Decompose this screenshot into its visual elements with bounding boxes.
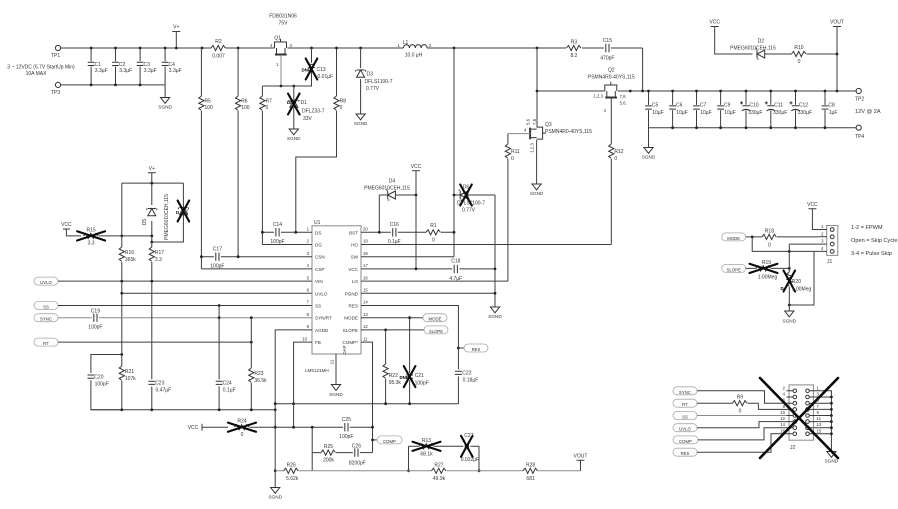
op-amp U1 LM5121MH controller <box>302 220 368 373</box>
wire Q3 gate / resistor R11 <box>505 134 530 282</box>
svg-text:49.9k: 49.9k <box>433 476 446 482</box>
svg-text:L1: L1 <box>403 40 409 46</box>
svg-text:PMEG6010CEH,115: PMEG6010CEH,115 <box>364 186 410 192</box>
ground SGND below J1 <box>783 305 797 324</box>
capacitor C27 (DNP) <box>461 433 479 471</box>
svg-text:0.1µF: 0.1µF <box>223 388 236 394</box>
svg-text:95.3k: 95.3k <box>389 380 402 386</box>
resistor R8 <box>296 48 346 232</box>
svg-text:PSMN4R0-40YS,115: PSMN4R0-40YS,115 <box>545 129 592 135</box>
power flag V+ top <box>172 25 180 49</box>
svg-text:0: 0 <box>739 409 742 415</box>
svg-text:UVLO: UVLO <box>40 280 52 285</box>
capacitor C13 (DNP) <box>281 48 333 86</box>
svg-text:R25: R25 <box>324 444 333 450</box>
resistor R28 <box>523 462 537 482</box>
annotation jumper settings <box>851 225 897 257</box>
wire Q3 source to ground <box>536 140 538 184</box>
svg-text:10A MAX: 10A MAX <box>26 71 48 77</box>
testpoint TP2 <box>855 88 864 102</box>
svg-text:VCC: VCC <box>188 425 199 431</box>
capacitor C11 (polarized) <box>765 91 787 128</box>
svg-text:10: 10 <box>780 410 785 415</box>
svg-text:DNP: DNP <box>400 375 409 380</box>
svg-text:C15: C15 <box>603 38 612 44</box>
capacitor C25 <box>339 417 353 440</box>
net bubble RES <box>458 344 488 352</box>
svg-text:C27: C27 <box>464 433 473 439</box>
wire C25 row <box>275 426 372 428</box>
zener D1 (DNP) <box>287 86 325 129</box>
svg-text:R28: R28 <box>526 462 535 468</box>
svg-text:365k: 365k <box>125 257 136 263</box>
wire R17/C23 column <box>151 281 153 379</box>
svg-text:17: 17 <box>363 263 368 268</box>
svg-text:VIN: VIN <box>315 279 323 284</box>
svg-text:3.3: 3.3 <box>155 257 162 263</box>
svg-text:75V: 75V <box>279 21 289 27</box>
wire RT row <box>58 341 251 343</box>
svg-text:3.3µF: 3.3µF <box>144 68 157 74</box>
svg-text:3.3: 3.3 <box>88 241 95 247</box>
svg-text:8200pF: 8200pF <box>349 461 366 467</box>
ground SGND below D3 <box>354 114 368 126</box>
wire SYNC row <box>99 317 312 319</box>
svg-text:330µF: 330µF <box>748 110 762 116</box>
svg-text:Q1: Q1 <box>274 36 281 42</box>
capacitor C26 <box>349 444 373 467</box>
capacitor C22 <box>455 371 478 384</box>
svg-text:TP4: TP4 <box>855 134 864 140</box>
svg-text:68.1k: 68.1k <box>420 451 433 457</box>
wire RES row and column <box>361 306 458 404</box>
wire output ground rail <box>649 127 857 129</box>
connector J1 <box>819 224 838 265</box>
resistor R2 (shunt) <box>211 39 225 60</box>
svg-text:1,2,3: 1,2,3 <box>593 94 603 99</box>
svg-text:D6: D6 <box>463 185 470 191</box>
net bubble SYNC <box>34 314 58 322</box>
transistor Q1 <box>269 14 297 68</box>
resistor R24 (DNP) <box>228 419 275 439</box>
power flag VCC left <box>61 222 81 236</box>
svg-text:SGND: SGND <box>158 105 172 110</box>
diode D2 <box>730 39 791 60</box>
resistor R21 <box>119 355 136 410</box>
power flag VCC at J1 <box>807 202 819 230</box>
svg-text:DNP: DNP <box>287 100 296 105</box>
junction dots input rail <box>90 47 93 50</box>
wire UVLO pin row <box>122 281 312 293</box>
svg-text:100pF: 100pF <box>339 434 353 440</box>
capacitor C12 (polarized) <box>790 91 812 128</box>
svg-text:18: 18 <box>363 251 368 256</box>
svg-text:0.007: 0.007 <box>212 54 225 60</box>
svg-text:C10: C10 <box>749 103 758 109</box>
svg-text:TP1: TP1 <box>51 53 60 59</box>
svg-text:C14: C14 <box>273 222 282 228</box>
svg-text:D8: D8 <box>184 209 189 215</box>
diode D6 (DNP) <box>454 185 495 269</box>
svg-text:R9: R9 <box>737 395 744 401</box>
svg-text:SGND: SGND <box>268 495 282 500</box>
svg-text:7,8: 7,8 <box>532 118 537 125</box>
diode D5 <box>142 194 170 240</box>
capacitor C19 <box>58 309 102 331</box>
capacitor C21 (DNP) <box>400 318 429 404</box>
net bubble UVLO <box>34 277 58 285</box>
svg-text:100: 100 <box>241 105 250 111</box>
svg-text:33V: 33V <box>303 116 313 122</box>
svg-text:C11: C11 <box>774 103 783 109</box>
wire Q3 drain column <box>536 48 538 127</box>
svg-text:R17: R17 <box>155 250 164 256</box>
svg-text:0: 0 <box>798 59 801 65</box>
svg-text:1.00Meg: 1.00Meg <box>792 287 812 293</box>
capacitor C9 <box>717 91 736 128</box>
wire bottom feedback rail <box>275 470 580 472</box>
svg-text:DFLS1100-7: DFLS1100-7 <box>365 79 393 85</box>
svg-text:R1: R1 <box>430 223 437 229</box>
svg-text:SGND: SGND <box>783 319 797 324</box>
svg-text:FDB031N06: FDB031N06 <box>269 14 297 20</box>
svg-text:COMP: COMP <box>679 439 692 444</box>
svg-text:0: 0 <box>340 105 343 111</box>
svg-text:TP3: TP3 <box>51 90 60 96</box>
capacitor C2 <box>112 48 132 85</box>
svg-text:CSP: CSP <box>315 267 324 272</box>
capacitor C1 <box>88 48 108 85</box>
resistor R6 <box>236 48 250 257</box>
wire DS row <box>262 231 312 233</box>
wire Q1 gate <box>280 55 282 86</box>
wire SS to pin10 <box>697 415 787 417</box>
svg-text:SGND: SGND <box>488 314 502 319</box>
wire RES to pin16 <box>697 434 787 452</box>
svg-text:PMEG6010CEH,115: PMEG6010CEH,115 <box>730 46 776 52</box>
wire UVLO to pin12 <box>697 422 787 428</box>
svg-text:COMP*: COMP* <box>342 340 358 345</box>
svg-text:R21: R21 <box>125 369 134 375</box>
node input annotation <box>7 65 75 78</box>
net bubble SLOPE at J1 <box>722 264 746 272</box>
svg-text:C4: C4 <box>169 62 176 68</box>
svg-text:100pF: 100pF <box>95 382 109 388</box>
net bubble RT at J2 <box>673 399 697 407</box>
svg-text:SGND: SGND <box>354 121 368 126</box>
svg-text:AGND: AGND <box>315 328 329 333</box>
svg-text:SYN/RT: SYN/RT <box>315 316 332 321</box>
wire CSN row / capacitor C17 <box>201 247 312 270</box>
power flag VOUT top right <box>830 20 844 92</box>
capacitor C7 <box>693 91 712 128</box>
svg-text:3 ~ 12VDC (5.7V StartUp Min): 3 ~ 12VDC (5.7V StartUp Min) <box>7 65 75 71</box>
svg-text:0.77V: 0.77V <box>462 208 476 214</box>
svg-text:330µF: 330µF <box>798 110 812 116</box>
wire V+ loop <box>122 183 184 242</box>
svg-text:5.62k: 5.62k <box>286 476 299 482</box>
resistor R19 (DNP) <box>746 260 790 281</box>
capacitor C23 <box>148 381 171 410</box>
resistor R7 <box>260 86 272 245</box>
capacitor C14 <box>270 222 284 245</box>
svg-text:VCC: VCC <box>61 222 72 228</box>
svg-text:COMP: COMP <box>383 439 396 444</box>
net bubble COMP at J2 <box>673 436 698 444</box>
svg-text:1µF: 1µF <box>829 110 838 116</box>
svg-text:R2: R2 <box>215 39 222 45</box>
net bubble MODE at J1 <box>722 233 746 241</box>
wire VCC row / capacitor C18 <box>361 259 495 283</box>
svg-text:12: 12 <box>363 324 368 329</box>
wire MODE to pin4 row <box>752 237 819 252</box>
svg-text:5,6.: 5,6. <box>620 101 627 106</box>
svg-text:Q3: Q3 <box>545 122 552 128</box>
svg-text:SGND: SGND <box>825 459 839 464</box>
svg-text:R20: R20 <box>792 279 801 285</box>
wire HO row <box>361 244 611 246</box>
svg-text:R10: R10 <box>794 45 803 51</box>
svg-text:D: D <box>781 286 784 291</box>
ground SGND below D1 <box>287 129 301 141</box>
net bubble SS at J2 <box>673 412 697 420</box>
svg-text:0.01µF: 0.01µF <box>318 74 334 80</box>
svg-text:D1: D1 <box>301 100 308 106</box>
net bubble MODE <box>423 314 447 322</box>
transistor Q2 <box>588 68 635 114</box>
wire lower ground rail <box>91 409 275 411</box>
svg-text:SW: SW <box>351 255 359 260</box>
svg-text:PMEG6010CEH,115: PMEG6010CEH,115 <box>164 194 170 240</box>
svg-text:D5: D5 <box>142 219 148 226</box>
svg-text:MODE: MODE <box>727 236 740 241</box>
svg-text:100: 100 <box>205 105 214 111</box>
svg-text:C12: C12 <box>799 103 808 109</box>
svg-text:Open = Skip Cycle: Open = Skip Cycle <box>851 238 897 244</box>
svg-text:C1: C1 <box>95 62 102 68</box>
net bubble COMP <box>373 436 403 444</box>
ground SGND below C4 <box>158 98 172 110</box>
svg-text:TP2: TP2 <box>855 97 864 103</box>
wire output rail <box>537 90 856 92</box>
resistor R22 <box>383 330 401 404</box>
resistor R18 <box>746 228 819 248</box>
diode D4 <box>364 179 416 233</box>
svg-text:C25: C25 <box>342 417 351 423</box>
ground SGND below U1 <box>329 385 343 398</box>
svg-text:10: 10 <box>302 336 307 341</box>
diode D3 <box>356 48 393 114</box>
wire R16 column down to R21 <box>121 293 123 354</box>
svg-text:C2: C2 <box>119 62 126 68</box>
svg-text:11: 11 <box>817 416 822 421</box>
wire RT to pin8 <box>758 403 786 409</box>
svg-text:VCC: VCC <box>348 267 358 272</box>
svg-text:R23: R23 <box>254 371 263 377</box>
svg-text:10µF: 10µF <box>700 110 712 116</box>
ground SGND below Q3 <box>530 184 544 196</box>
svg-text:C18: C18 <box>451 259 460 265</box>
capacitor C4 <box>162 48 182 85</box>
svg-text:0.022µF: 0.022µF <box>461 457 479 463</box>
svg-text:8.2: 8.2 <box>571 53 578 59</box>
wire LO row <box>361 280 508 282</box>
net bubble RT <box>34 338 58 346</box>
svg-text:0: 0 <box>768 242 771 248</box>
svg-text:PSMN4R0-40YS,115: PSMN4R0-40YS,115 <box>588 75 635 81</box>
svg-text:1.00Meg: 1.00Meg <box>758 274 778 280</box>
wire DAP pin 21 to ground <box>330 354 337 385</box>
svg-text:0.47µF: 0.47µF <box>156 388 172 394</box>
svg-text:C13: C13 <box>317 67 326 73</box>
resistor R15 (DNP) <box>77 228 152 247</box>
svg-text:14: 14 <box>780 422 785 427</box>
svg-text:R13: R13 <box>422 438 431 444</box>
resistor R3 <box>567 40 581 60</box>
svg-text:330µF: 330µF <box>773 110 787 116</box>
net bubble SS <box>34 302 58 310</box>
svg-text:J1: J1 <box>827 259 833 265</box>
svg-text:470pF: 470pF <box>600 56 614 62</box>
resistor R13 (DNP) <box>409 438 464 471</box>
svg-text:VCC: VCC <box>411 164 422 170</box>
svg-text:Q2: Q2 <box>608 68 615 74</box>
svg-text:D: D <box>176 210 179 215</box>
svg-text:SGND: SGND <box>642 155 656 160</box>
svg-text:0: 0 <box>266 105 269 111</box>
capacitor C24 <box>216 306 236 410</box>
svg-text:R7: R7 <box>266 99 273 105</box>
svg-text:J2: J2 <box>790 445 796 451</box>
svg-text:DFLS1100-7: DFLS1100-7 <box>457 201 485 207</box>
wire AGND to ground column <box>275 330 312 488</box>
svg-text:R6: R6 <box>241 99 248 105</box>
capacitor C3 <box>137 48 157 85</box>
svg-text:C19: C19 <box>91 309 100 315</box>
svg-text:19: 19 <box>363 239 368 244</box>
svg-text:D4: D4 <box>389 179 396 185</box>
resistor R5 <box>199 48 213 269</box>
svg-text:U1: U1 <box>314 220 321 226</box>
svg-text:DNP: DNP <box>302 68 311 73</box>
svg-text:MODE: MODE <box>344 316 358 321</box>
svg-text:12V @ 2A: 12V @ 2A <box>855 109 881 115</box>
net bubble SYNC at J2 <box>673 387 697 395</box>
svg-text:15: 15 <box>363 288 368 293</box>
inductor L1 <box>398 40 433 59</box>
capacitor C5 <box>645 91 664 128</box>
svg-text:16: 16 <box>363 275 368 280</box>
svg-text:0: 0 <box>614 156 617 162</box>
capacitor C8 <box>822 91 838 128</box>
svg-text:7,8: 7,8 <box>620 94 627 99</box>
svg-text:D3: D3 <box>367 72 374 78</box>
svg-text:10.0 µH: 10.0 µH <box>405 53 423 59</box>
svg-text:R19: R19 <box>762 260 771 266</box>
wire SW row <box>361 256 454 258</box>
svg-text:12: 12 <box>780 416 785 421</box>
wire BST row / capacitor C16 / resistor R1 <box>361 222 454 257</box>
svg-text:107k: 107k <box>125 376 136 382</box>
svg-text:10µF: 10µF <box>724 110 736 116</box>
capacitor C6 <box>669 91 688 128</box>
svg-text:C8: C8 <box>828 103 835 109</box>
wire SS row <box>58 305 312 307</box>
svg-text:C23: C23 <box>155 381 164 387</box>
svg-text:C26: C26 <box>352 444 361 450</box>
svg-text:UVLO: UVLO <box>315 291 328 296</box>
power flag V+ mid <box>148 166 156 183</box>
svg-text:1,2,3: 1,2,3 <box>530 143 535 153</box>
svg-text:R18: R18 <box>765 228 774 234</box>
svg-text:FB: FB <box>315 340 321 345</box>
wire R20 to ground and pin4 return <box>789 251 814 305</box>
wire UVLO bubble row <box>58 280 312 282</box>
svg-text:RT: RT <box>43 341 49 346</box>
svg-text:SGND: SGND <box>287 136 301 141</box>
wire gate node row <box>262 85 311 87</box>
wire SW column <box>453 48 455 232</box>
svg-text:1-2 = FPWM: 1-2 = FPWM <box>851 225 883 231</box>
svg-text:SYNC: SYNC <box>679 390 691 395</box>
wire R25 branch column <box>311 427 313 471</box>
wire PGND row <box>361 269 495 307</box>
svg-text:RT: RT <box>682 402 688 407</box>
svg-text:LM5121MH: LM5121MH <box>305 368 329 373</box>
power flag VCC at R24 <box>188 424 228 432</box>
svg-text:681: 681 <box>526 476 535 482</box>
svg-text:21: 21 <box>330 359 335 364</box>
svg-text:C24: C24 <box>223 381 232 387</box>
svg-text:LO: LO <box>352 279 359 284</box>
svg-text:SYNC: SYNC <box>40 317 52 322</box>
J2 DNP cross <box>760 378 838 458</box>
svg-text:R15: R15 <box>87 228 96 234</box>
svg-text:200k: 200k <box>323 458 334 464</box>
svg-text:R5: R5 <box>205 99 212 105</box>
svg-text:5,6: 5,6 <box>526 118 531 125</box>
resistor R27 <box>432 462 446 482</box>
power flag VOUT bottom <box>574 453 588 471</box>
wire SLOPE row <box>361 329 424 331</box>
wire Q2 gate / resistor R12 <box>609 98 624 245</box>
svg-text:VCC: VCC <box>807 202 818 208</box>
wire MODE row <box>361 317 423 319</box>
svg-text:10µF: 10µF <box>652 110 664 116</box>
transistor Q3 <box>530 127 546 139</box>
svg-text:20: 20 <box>363 227 368 232</box>
ground SGND bottom left column <box>268 488 282 500</box>
svg-text:14: 14 <box>363 300 368 305</box>
svg-text:SS: SS <box>315 304 321 309</box>
svg-text:100pF: 100pF <box>415 381 429 387</box>
resistor R16 <box>119 236 136 281</box>
svg-text:11: 11 <box>363 336 368 341</box>
wire upper ground rail <box>275 403 458 405</box>
svg-text:RES: RES <box>681 451 690 456</box>
svg-text:C16: C16 <box>390 222 399 228</box>
resistor R17 <box>149 242 164 281</box>
svg-text:SS: SS <box>682 415 688 420</box>
resistor R23 <box>249 318 267 410</box>
ground SGND below C5 <box>642 148 656 160</box>
testpoint TP1 <box>51 45 61 59</box>
svg-text:R8: R8 <box>340 99 347 105</box>
svg-text:R22: R22 <box>389 373 398 379</box>
svg-text:BST: BST <box>349 230 358 235</box>
svg-text:10µF: 10µF <box>676 110 688 116</box>
svg-text:RES: RES <box>472 347 481 352</box>
